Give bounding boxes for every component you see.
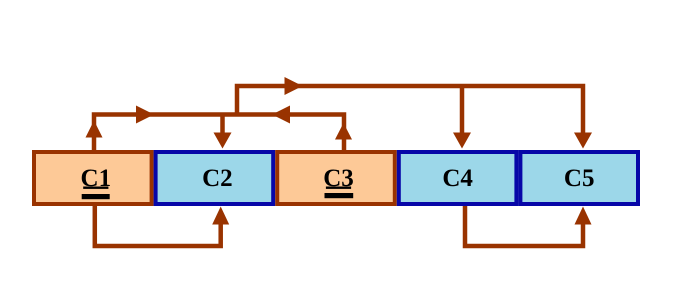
arrowhead down into C4 top: [453, 133, 471, 149]
arrowhead up into C2 bottom: [212, 207, 229, 225]
underline C3: [326, 187, 351, 189]
wire C2 top stem: [220, 115, 225, 135]
arrowhead up into C5 bottom: [575, 207, 592, 225]
wire bottom loop C1-C2: [95, 206, 221, 246]
arrowhead right on lower rail: [136, 106, 154, 124]
bar C1: [82, 194, 110, 199]
arrowhead right on upper rail: [285, 77, 303, 95]
box C2: [156, 152, 274, 204]
box C1: [34, 152, 152, 204]
arrowhead down into C2 top: [214, 133, 232, 149]
wire lower top rail: [94, 115, 344, 151]
svg-text:C4: C4: [442, 165, 473, 192]
wire upper rail: [237, 86, 583, 134]
bar C3: [325, 193, 354, 198]
arrowhead up at C3 top: [335, 123, 352, 140]
svg-text:C5: C5: [564, 165, 595, 192]
box C5: [520, 152, 638, 204]
underline C1: [83, 187, 108, 189]
wire C4 stem: [460, 86, 465, 134]
arrowhead left on lower rail: [272, 106, 290, 124]
box C4: [399, 152, 517, 204]
svg-text:C2: C2: [202, 165, 233, 192]
wire bottom loop C4-C5: [465, 206, 583, 246]
arrowhead down into C5 top: [574, 133, 592, 149]
box C3: [277, 152, 395, 204]
arrowhead up at C1 top: [86, 121, 103, 138]
